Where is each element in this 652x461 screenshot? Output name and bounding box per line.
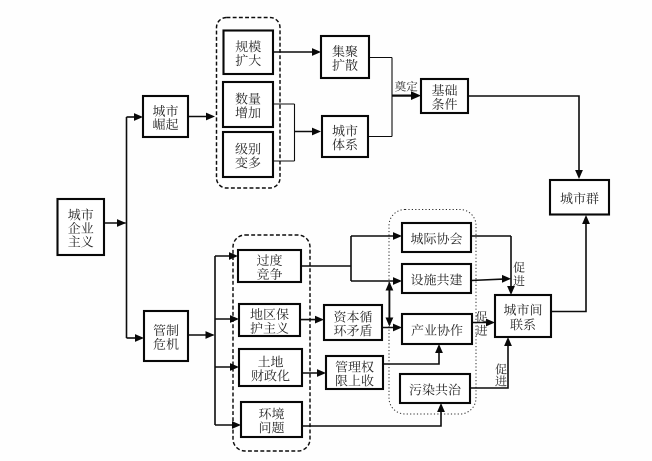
box 土地财政化 [239,349,302,386]
wire 集聚扩散 out [369,57,392,59]
wire 基础条件 to 城市群 (top) [468,96,583,179]
wire 环境问题 to 污染共治 (bottom) [302,403,445,426]
label 奠定 (on arrow to 基础条件) [395,81,417,92]
box 产业协作 [402,314,472,344]
wire 设施共建 out (arrow at junction) [471,275,511,283]
box 设施共建 [402,264,471,293]
label 促进 (vertical, on arrow 产业协作 to 城市间联系) [476,311,487,336]
wire to 设施共建 [351,277,402,285]
wire to 过度竞争 [215,252,238,260]
box 过度竞争 [238,250,301,282]
box 基础条件 [421,79,468,113]
wire 城际协会 out [471,235,511,237]
box 城市崛起 [143,96,188,137]
wire double arrow 设施共建/产业协作 [386,282,394,327]
wire 城市崛起 to dashed group [189,113,215,121]
label 促进 (vertical, on arrow 污染共治 to 城市间联系) [495,363,506,386]
label 促进 (vertical, on arrow into 城市间联系 top) [513,262,524,286]
wire branch vertical 过度竞争 [350,236,352,281]
box 级别变多 [223,132,273,177]
wire distribution vertical (crisis factors) [214,256,216,425]
wire 资本循环矛盾 to 产业协作 [382,324,402,332]
wire to 环境问题 [215,421,241,429]
box 城市企业主义 [58,199,105,255]
wire to 城际协会 [351,232,402,240]
wire to 地区保护主义 [215,315,239,323]
wire to 土地财政化 [215,363,239,371]
wire 管制危机 to distribution junction [188,331,215,339]
wire 产业协作 to 城市间联系 [472,319,495,327]
box 城市体系 [322,116,368,157]
box 集聚扩散 [321,36,369,78]
box 城市群 [550,180,609,215]
wire 数量增加 out [273,103,295,105]
box 规模扩大 [224,31,274,75]
box 城市间联系 [495,295,551,337]
wire junction to 管制危机 [127,334,145,342]
wire merge to 城市体系 [295,128,322,136]
box 管理权限上收 [326,356,383,389]
wire junction to 城市崛起 [127,113,144,121]
wire 城市企业主义 to split junction [104,219,126,227]
wire 规模扩大 to 集聚扩散 [273,48,321,56]
wire 奠定 arrow to 基础条件 [392,91,421,100]
wire 地区保护主义 to 资本循环矛盾 [300,316,324,324]
wire 管理权限上收 to 产业协作 (bottom) [383,344,443,364]
box 地区保护主义 [239,304,300,336]
wire 过度竞争 out [301,265,351,267]
wire merge vertical 集聚扩散/城市体系 [391,58,393,137]
wire 城市体系 out [368,136,392,138]
wire 城市间联系 to 城市群 (bottom) [551,215,590,312]
wire 土地财政化 to 管理权限上收 [302,369,326,377]
box 污染共治 [400,374,470,403]
box 资本循环矛盾 [324,305,382,340]
dashed group box: urban rise factors (规模扩大/数量增加/级别变多) [217,18,281,189]
wire junction down to 城市间联系 (top) [507,236,515,295]
box 城际协会 [402,223,471,252]
wire split junction vertical (to 城市崛起 / 管制危机) [126,117,128,338]
dotted group box: cooperation measures (城际协会/设施共建/产业协作/污染共治) [389,210,476,415]
dashed group box: regulation crisis factors (过度竞争/地区保护主义/土地财政化/环境问题) [233,235,310,451]
box 数量增加 [223,82,273,127]
wire 级别变多 out [273,160,295,162]
box 环境问题 [241,402,302,437]
wire 污染共治 to 城市间联系 (bottom) [470,337,512,388]
box 管制危机 [144,311,188,361]
wire merge vertical 数量增加/级别变多 [294,104,296,161]
